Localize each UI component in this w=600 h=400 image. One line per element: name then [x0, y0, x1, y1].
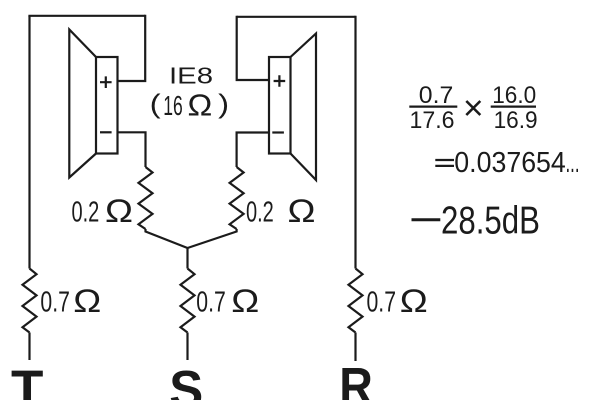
speaker LS1 minus terminal mark	[100, 131, 112, 133]
svg-text:0.2: 0.2	[72, 197, 100, 229]
svg-text:Ω: Ω	[288, 193, 316, 229]
svg-text:16: 16	[163, 90, 183, 121]
svg-text:0.7: 0.7	[196, 287, 226, 319]
wire: R1 bottom to junction node	[146, 229, 188, 248]
svg-text:16.9: 16.9	[494, 108, 538, 134]
resistor R4 0.7 ohm (S branch)	[181, 269, 195, 333]
svg-text:Ω: Ω	[73, 283, 101, 319]
wire: top rail right speaker	[237, 16, 356, 18]
wire: right speaker minus lead to resistor R2	[237, 133, 269, 168]
svg-text:Ω: Ω	[400, 283, 428, 319]
speaker LS1 plus terminal mark	[100, 76, 112, 88]
speaker LS2 plus terminal mark	[274, 75, 286, 87]
svg-text:IE8: IE8	[169, 63, 213, 89]
wire: R4 to terminal S	[186, 333, 188, 361]
wire: right speaker plus lead (down from top rail to + terminal)	[237, 16, 269, 80]
svg-text:28.5dB: 28.5dB	[441, 200, 540, 243]
formula fraction 1 bar	[409, 105, 457, 107]
wire: right rail from top rail down to R resistor	[354, 16, 356, 269]
resistor R5 0.7 ohm (R branch)	[349, 269, 363, 333]
svg-text:...: ...	[566, 146, 580, 179]
wire: R3 to terminal T	[28, 333, 30, 361]
svg-text:R: R	[339, 358, 373, 400]
node J1: series junction to S	[186, 247, 188, 269]
resistor R1 0.2 ohm (left)	[139, 167, 153, 229]
svg-text:0.7: 0.7	[40, 287, 70, 319]
svg-text:17.6: 17.6	[410, 108, 455, 134]
result minus sign	[412, 218, 441, 221]
wire: R5 to terminal R	[354, 333, 356, 362]
speaker LS2 coil rectangle (right)	[269, 57, 291, 154]
svg-text:0.7: 0.7	[367, 287, 397, 319]
wire: left rail from top rail down to T resistor	[28, 16, 30, 269]
wire: left speaker plus lead (down from top rail to + terminal)	[118, 15, 146, 81]
svg-text:0.7: 0.7	[419, 83, 454, 109]
formula fraction 2 bar	[491, 105, 536, 107]
wire: R2 bottom to junction node	[188, 229, 237, 248]
formula equals sign	[435, 160, 454, 166]
speaker LS1 cone (left)	[69, 30, 96, 178]
svg-text:Ω: Ω	[231, 283, 259, 319]
svg-text:Ω: Ω	[105, 193, 133, 229]
wire: left speaker minus lead to resistor R1	[118, 132, 146, 167]
resistor R3 0.7 ohm (T branch)	[23, 269, 37, 333]
svg-text:S: S	[169, 361, 203, 400]
svg-text:(: (	[150, 89, 161, 119]
svg-text:): )	[218, 89, 229, 119]
svg-text:T: T	[11, 360, 43, 400]
svg-text:0.037654: 0.037654	[454, 147, 566, 179]
speaker LS2 cone (right)	[291, 34, 317, 181]
formula multiply sign	[466, 101, 480, 115]
svg-text:Ω: Ω	[188, 89, 213, 122]
wire: top rail left speaker	[28, 15, 145, 17]
speaker LS2 minus terminal mark	[272, 131, 284, 133]
svg-text:16.0: 16.0	[492, 83, 536, 109]
resistor R2 0.2 ohm (right)	[230, 167, 244, 229]
speaker LS1 coil rectangle (left)	[96, 57, 118, 154]
svg-text:0.2: 0.2	[246, 197, 274, 229]
